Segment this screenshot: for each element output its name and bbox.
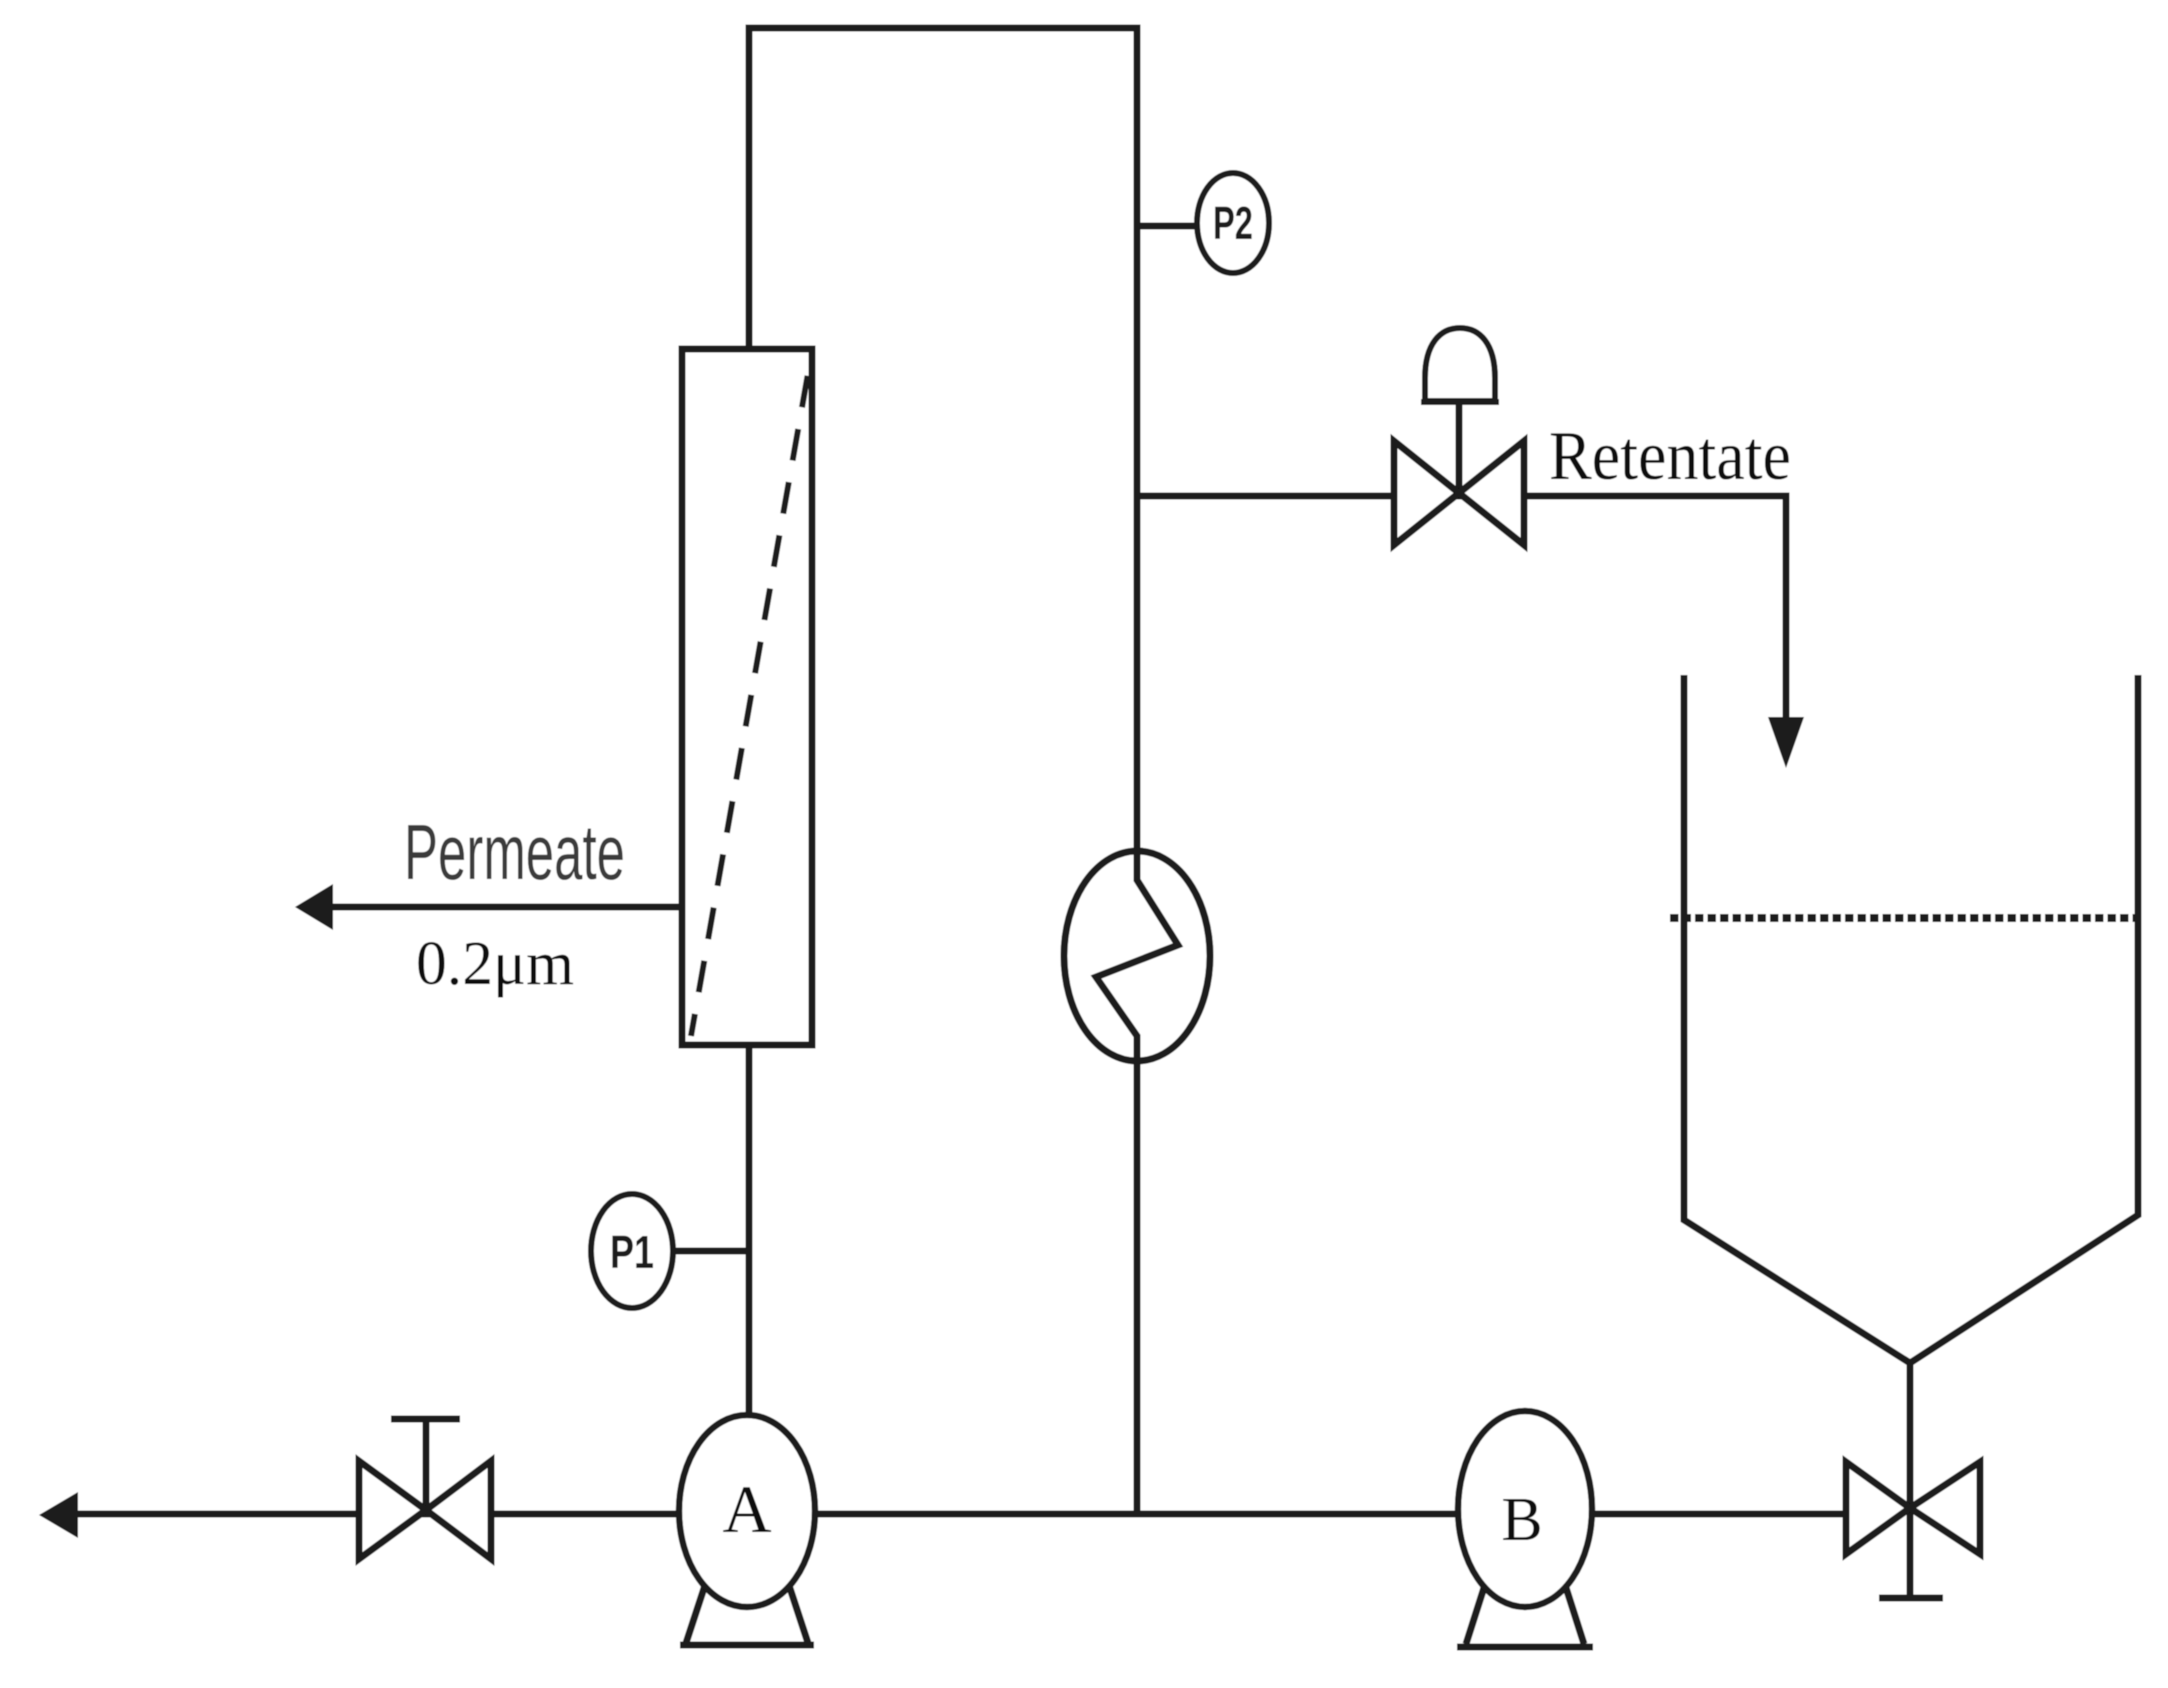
svg-text:Retentate: Retentate [1549,418,1791,495]
svg-text:Permeate: Permeate [404,808,625,896]
svg-text:B: B [1501,1486,1542,1554]
svg-text:0.2μm: 0.2μm [416,930,574,998]
svg-text:A: A [722,1471,771,1547]
svg-text:P2: P2 [1213,197,1253,249]
svg-text:P1: P1 [610,1226,654,1278]
